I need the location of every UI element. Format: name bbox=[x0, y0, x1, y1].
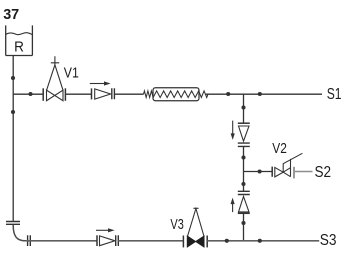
svg-text:V3: V3 bbox=[170, 216, 183, 233]
svg-text:V2: V2 bbox=[272, 140, 287, 157]
check valve top poppet triangle bbox=[95, 89, 111, 99]
svg-text:S1: S1 bbox=[327, 86, 342, 103]
junction dot above V2 tee bbox=[241, 155, 245, 159]
reservoir R tank walls bbox=[6, 25, 33, 55]
valve V2 left flange bbox=[271, 167, 273, 177]
wire tee to valve V2 bbox=[244, 171, 273, 173]
check valve bottom seat bar bbox=[96, 235, 98, 246]
wire top line from rail to V1 bbox=[13, 93, 43, 95]
junction dot S1 wire left bbox=[226, 92, 230, 96]
valve V3 right flange bbox=[206, 236, 208, 248]
wire left rail from tank down to elbow bbox=[12, 56, 14, 221]
check valve up seat bar bbox=[238, 212, 250, 214]
valve V3 filled bowtie bbox=[187, 236, 204, 247]
union double bars on left rail bbox=[6, 222, 20, 225]
check valve down seat bar bbox=[238, 122, 250, 124]
junction dot on top wire bbox=[28, 92, 32, 96]
check valve down poppet triangle bbox=[239, 126, 250, 141]
wire check valve to V3 bbox=[118, 240, 183, 242]
check valve up flow arrow bbox=[232, 204, 234, 212]
valve V1 stem cross bbox=[51, 56, 59, 65]
wire V2 to S2 bbox=[295, 171, 313, 173]
wire check valve down to V2 junction bbox=[243, 146, 245, 191]
svg-text:R: R bbox=[14, 39, 24, 56]
valve V2 right triangle with raised edge bbox=[283, 159, 290, 177]
junction dot S3 wire left bbox=[225, 239, 229, 243]
junction dot S1 wire right bbox=[258, 92, 262, 96]
union double ticks on bottom line bbox=[28, 235, 31, 246]
junction dot below V2 tee bbox=[241, 182, 245, 186]
junction dot on left rail lower bbox=[11, 110, 15, 114]
wire check valve to restrictor bbox=[114, 93, 143, 95]
svg-text:S3: S3 bbox=[320, 232, 337, 249]
reservoir R liquid surface wave bbox=[6, 33, 33, 35]
check valve down outlet double bars bbox=[238, 143, 250, 146]
valve V3 actuator triangle bbox=[188, 209, 204, 237]
restrictor housing box bbox=[153, 88, 199, 101]
wire restrictor to S1 bbox=[206, 93, 322, 95]
valve V2 right flange bbox=[293, 167, 295, 179]
wire V1 to check valve bbox=[65, 93, 91, 95]
valve V1 left flange bbox=[42, 88, 44, 101]
check valve down flow arrow bbox=[232, 121, 234, 134]
check valve up outlet double bars bbox=[238, 191, 250, 194]
svg-text:S2: S2 bbox=[315, 164, 332, 181]
check valve bottom outlet double bars bbox=[116, 235, 119, 246]
svg-text:37: 37 bbox=[3, 6, 19, 23]
wire V3 to S3 bbox=[207, 240, 319, 242]
check valve top flow arrow bbox=[90, 83, 106, 85]
restrictor spring zigzag bbox=[144, 91, 208, 98]
check valve top seat bar bbox=[91, 88, 93, 99]
valve V2 left triangle bbox=[275, 167, 283, 177]
wire branch down from S1 line bbox=[243, 94, 245, 123]
svg-text:V1: V1 bbox=[64, 65, 79, 82]
check valve bottom flow arrow bbox=[96, 229, 109, 231]
valve V3 left flange bbox=[182, 236, 184, 248]
elbow arc rail to bottom line bbox=[13, 225, 25, 241]
valve V3 stem tee cap bbox=[193, 207, 198, 209]
wire bottom line to check valve bbox=[26, 240, 98, 242]
valve V1 actuator triangle bbox=[47, 65, 63, 90]
wire check valve up to S3 line bbox=[243, 213, 245, 241]
valve V1 right flange bbox=[64, 88, 66, 101]
valve V1 bowtie body bbox=[47, 90, 64, 101]
check valve up poppet triangle bbox=[239, 197, 250, 212]
junction dot on V2 wire bbox=[258, 169, 262, 173]
junction dot branch top bbox=[241, 105, 245, 109]
junction dot S3 wire right bbox=[258, 239, 262, 243]
check valve bottom poppet triangle bbox=[100, 236, 115, 246]
junction dot on left rail upper bbox=[11, 76, 15, 80]
check valve top outlet double bars bbox=[112, 88, 115, 99]
junction dot above S3 line bbox=[241, 221, 245, 225]
valve V2 lever stub and diagonal bbox=[283, 153, 302, 172]
